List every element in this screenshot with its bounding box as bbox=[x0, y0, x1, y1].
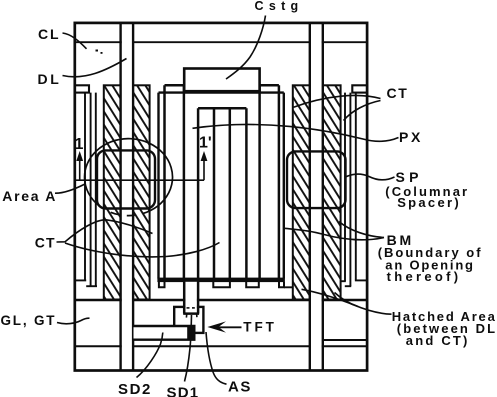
wire SD1 drain stem bottom cap bbox=[183, 312, 199, 315]
node BM opening boundary left line bbox=[157, 93, 159, 279]
node TFT arrow head bbox=[207, 321, 226, 332]
capacitor Cstg storage capacitor box bbox=[184, 69, 259, 92]
svg-text:GL, GT: GL, GT bbox=[1, 313, 57, 328]
node section arrow 1 bbox=[79, 158, 81, 180]
wire left-edge slit bottom cap a bbox=[75, 279, 86, 281]
wire CT slit line left-edge c bbox=[95, 93, 97, 287]
node section arrow 1' bbox=[203, 158, 205, 180]
svg-text:thereof): thereof) bbox=[387, 269, 462, 284]
wire leader BM lower bbox=[339, 222, 384, 238]
wire leader CT left upper bbox=[57, 220, 153, 242]
node BM opening boundary right line bbox=[283, 93, 285, 279]
wire SD1 drain stem white interior bbox=[185, 282, 197, 313]
svg-text:CL: CL bbox=[38, 26, 60, 42]
node rounded rect left (spacer outline in Area A) bbox=[97, 150, 155, 208]
wire DL data line right bbox=[310, 23, 323, 371]
svg-text:SP: SP bbox=[396, 169, 423, 185]
svg-text:AS: AS bbox=[228, 379, 252, 396]
node CT column left (counter electrode) bbox=[163, 85, 166, 278]
node AS island hidden top edge dashes bbox=[187, 307, 190, 309]
svg-text:Cstg: Cstg bbox=[255, 0, 304, 13]
wire SD2 source electrode bar bbox=[134, 326, 195, 340]
node Area A indicator ellipse (dashed bottom) bbox=[103, 209, 151, 216]
wire GL/GT gate line top edge bbox=[75, 299, 367, 302]
wire gate line step (bottom right segment) bbox=[323, 339, 367, 341]
wire DL data line left bbox=[121, 23, 134, 371]
wire right-edge slit bottom cap a bbox=[341, 280, 346, 282]
wire leader SD2 bbox=[137, 333, 163, 378]
wire CL horizontal line (bottom of common line band) bbox=[75, 41, 367, 43]
node comb foot 3 bbox=[279, 282, 284, 287]
outer frame of pixel region bbox=[75, 23, 367, 371]
wire leader Hatched Area upper tip bbox=[302, 289, 392, 314]
wire PX finger 3 bbox=[229, 108, 232, 278]
svg-text:Spacer): Spacer) bbox=[397, 195, 461, 210]
wire PX finger 2 bbox=[213, 108, 216, 278]
wire leader DL bbox=[63, 59, 127, 77]
wire leader CT right upper bbox=[294, 95, 381, 107]
wire comb bottom bar bbox=[157, 278, 285, 283]
svg-text:CT: CT bbox=[35, 235, 56, 251]
node SP columnar spacer rounded rect bbox=[287, 151, 346, 208]
wire CT slit line left-edge b bbox=[90, 93, 92, 287]
transistor TFT amorphous silicon island AS bbox=[174, 307, 203, 333]
node comb foot 1 bbox=[213, 282, 230, 287]
wire leader GL GT bbox=[57, 318, 90, 324]
wire SD1 drain stem right edge bbox=[197, 282, 200, 314]
wire foot connector to hatch bbox=[284, 286, 293, 288]
hatched area between DL and CT, left inner column bbox=[133, 85, 150, 299]
svg-text:SD2: SD2 bbox=[118, 381, 152, 397]
wire leader PX bbox=[193, 124, 399, 141]
svg-text:SD1: SD1 bbox=[167, 385, 200, 397]
wire GL/GT gate line bottom edge bbox=[75, 345, 367, 347]
hatched area between DL and CT, left outer column bbox=[104, 85, 121, 299]
node CT column right (counter electrode) bbox=[258, 85, 261, 278]
wire SD1 drain stem left edge bbox=[183, 282, 186, 314]
wire leader CL bbox=[63, 33, 87, 49]
node scan speck a bbox=[96, 50, 99, 52]
svg-text:1: 1 bbox=[75, 136, 84, 153]
wire CT slit line left-edge a bbox=[84, 93, 86, 281]
node comb foot 2 bbox=[246, 282, 259, 287]
wire right-edge slit bottom cap c bbox=[355, 279, 367, 281]
svg-text:and CT): and CT) bbox=[406, 333, 470, 348]
wire section line 1-1' bbox=[76, 179, 204, 181]
hatched area between DL and CT, right inner column bbox=[293, 85, 310, 299]
node stem cap tick a bbox=[185, 314, 187, 318]
svg-text:DL: DL bbox=[38, 71, 62, 87]
wire leader AS bbox=[206, 332, 227, 384]
wire TFT arrow shaft bbox=[214, 326, 242, 328]
node BM opening boundary top line bbox=[159, 91, 284, 93]
wire right-edge slit bottom cap b bbox=[345, 285, 351, 287]
wire CT slit line right-edge b bbox=[349, 93, 351, 287]
svg-text:1': 1' bbox=[199, 135, 212, 152]
wire leader SP bbox=[345, 174, 395, 180]
wire CT slit line right-edge a bbox=[344, 93, 346, 282]
svg-text:PX: PX bbox=[399, 129, 423, 145]
node stem cap tick b bbox=[196, 314, 198, 318]
hatched area between DL and CT, right outer column bbox=[323, 85, 341, 299]
wire left-edge slit bottom cap b bbox=[86, 285, 97, 287]
wire leader SD1 bbox=[185, 315, 192, 382]
wire PX finger 4 bbox=[245, 108, 248, 278]
node Area A indicator ellipse (solid part) bbox=[85, 139, 173, 211]
wire leader Cstg bbox=[226, 16, 266, 80]
wire leader BM upper bbox=[285, 228, 385, 240]
svg-text:CT: CT bbox=[387, 85, 409, 101]
node comb foot 0 bbox=[159, 282, 165, 287]
wire CT slit line right-edge c bbox=[355, 93, 357, 281]
node scan speck b bbox=[101, 52, 103, 54]
wire PX finger 1 bbox=[197, 108, 200, 282]
svg-text:TFT: TFT bbox=[243, 319, 276, 334]
node CT tab at right frame edge bbox=[352, 85, 367, 92]
node PX pixel electrode comb top bbox=[198, 107, 246, 110]
node CT tab at left frame edge bbox=[75, 85, 89, 92]
wire leader CT left lower bbox=[65, 243, 220, 257]
wire leader CT right lower bbox=[344, 101, 381, 121]
wire leader Area A bbox=[55, 184, 85, 193]
svg-text:Area A: Area A bbox=[2, 188, 57, 204]
wire leader Hatched Area lower tip bbox=[335, 293, 359, 307]
